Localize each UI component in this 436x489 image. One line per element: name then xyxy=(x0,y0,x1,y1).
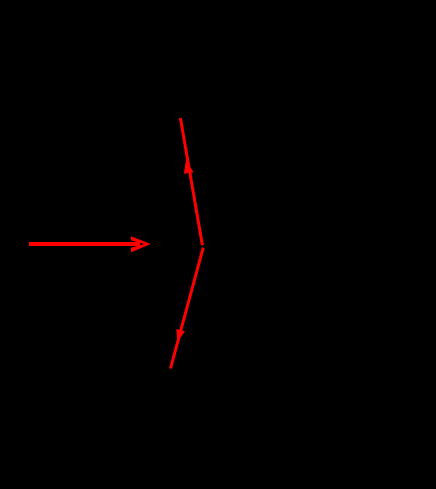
incident arrow shaft (horizontal) xyxy=(29,242,140,246)
upper outgoing ray (wire from vertex up-left) xyxy=(180,118,202,245)
incident arrow head (open chevron pointing right) xyxy=(131,236,151,252)
upper ray direction arrowhead (filled triangle, mid-line, pointing up) xyxy=(184,160,194,174)
lower ray direction arrowhead (filled triangle, mid-line, pointing down-left) xyxy=(176,329,185,342)
lower outgoing ray (wire from vertex down-left) xyxy=(171,248,204,369)
